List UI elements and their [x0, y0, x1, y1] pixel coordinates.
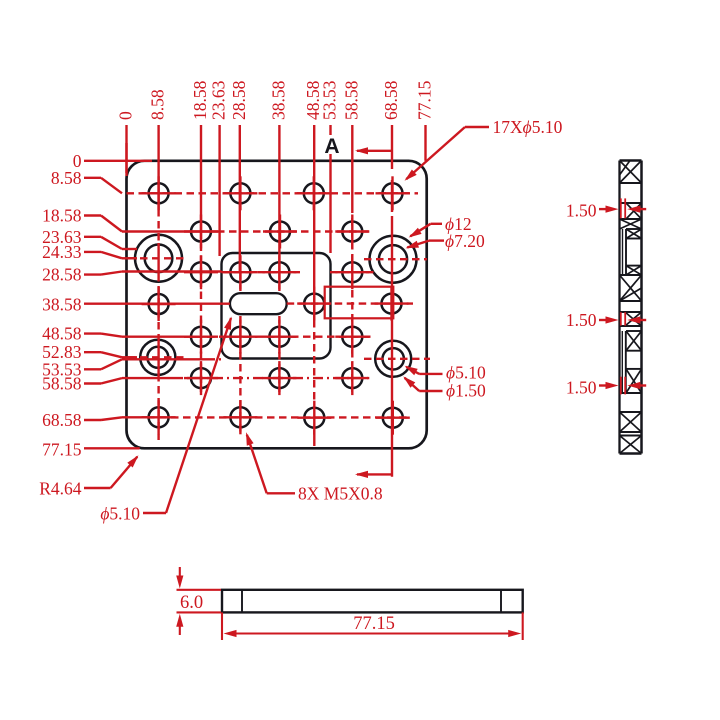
svg-text:8.58: 8.58: [148, 89, 168, 120]
left dimension label 58.58: [42, 374, 173, 394]
row 53.53 dash-dot to pocket: [205, 358, 222, 360]
hole H6 (small, with center cross): [263, 215, 297, 249]
dimension 6.0 extension lines: [177, 590, 222, 613]
col 48.58 tick below bottom hole: [313, 430, 315, 446]
svg-text:23.63: 23.63: [209, 80, 229, 120]
hole H14 (small, with center cross): [375, 287, 409, 321]
svg-text:18.58: 18.58: [190, 80, 210, 120]
column 68.58 solid line through plate and below: [391, 216, 393, 477]
bottom view outline: [222, 590, 523, 613]
hole H16 (small, with center cross): [223, 320, 257, 354]
hole H10 (small, with center cross): [262, 255, 296, 289]
callout R4.64: [39, 455, 138, 498]
centerline col 18.58 dashed lower: [200, 232, 202, 393]
svg-text:77.15: 77.15: [353, 614, 395, 634]
extension line column 38.58: [278, 125, 280, 272]
hole H20 (small, with center cross): [262, 361, 296, 395]
svg-text:ϕ5.10: ϕ5.10: [100, 504, 140, 524]
dimension 6.0 arrows: [176, 567, 183, 635]
left dimension label 8.58: [51, 168, 122, 194]
dimension 1.50 #3: [566, 378, 646, 398]
svg-text:24.33: 24.33: [42, 242, 82, 262]
hole H19 (small, with center cross): [184, 361, 218, 395]
hole H3 (small, with center cross): [297, 176, 331, 210]
svg-text:28.58: 28.58: [229, 80, 249, 120]
bottom arrow pointing left (at y=474): [357, 473, 392, 475]
left dimension label 52.83: [42, 342, 137, 362]
center pocket outline: [222, 253, 331, 359]
left dimension label 77.15: [42, 439, 140, 459]
counterbore hole CB4 phi5.10/phi1.50 bottom-right: [375, 341, 411, 377]
hole H24 (small, with center cross): [297, 401, 331, 435]
hole H17 (small, with center cross): [262, 320, 296, 354]
hole H21 (small, with center cross): [335, 361, 369, 395]
counterbore hole CB3 bottom-left: [140, 340, 175, 375]
svg-text:77.15: 77.15: [42, 439, 82, 459]
callout 17X phi5.10: [405, 117, 563, 181]
row 28.58 dashed centerline: [222, 271, 301, 273]
row 18.58 dashed centerline: [217, 230, 370, 232]
extension line column 18.58: [200, 125, 202, 232]
svg-text:48.58: 48.58: [42, 324, 82, 344]
dimension 77.15 line with arrows: [224, 630, 522, 637]
hole H18 (small, with center cross): [335, 320, 369, 354]
centerline CB1 horizontal dashes: [128, 257, 185, 259]
row 48.58 dashed centerline: [195, 336, 372, 338]
hole H9 (small, with center cross): [223, 255, 257, 289]
svg-text:8.58: 8.58: [51, 168, 82, 188]
row 8.58 dashed centerline: [127, 192, 419, 194]
left dimension label 24.33: [42, 242, 137, 262]
svg-text:68.58: 68.58: [381, 80, 401, 120]
centerline CB2 horizontal dashes: [364, 258, 427, 260]
hole H15 (small, with center cross): [184, 320, 218, 354]
callout phi7.20: [406, 231, 485, 251]
callout phi5.10 (slot, bottom-left): [100, 317, 231, 524]
svg-text:38.58: 38.58: [268, 80, 288, 120]
side view 1.50 red depth bar 3: [621, 377, 625, 395]
svg-text:R4.64: R4.64: [39, 479, 82, 499]
left dimension label 68.58: [42, 410, 147, 430]
svg-text:1.50: 1.50: [566, 378, 597, 398]
hole H1 (small, with center cross): [142, 176, 176, 210]
extension line column 8.58: [157, 125, 159, 209]
extension line column 68.58 upper: [391, 125, 393, 169]
svg-text:ϕ7.20: ϕ7.20: [445, 231, 485, 251]
left dimension label 28.58: [42, 265, 221, 285]
svg-text:77.15: 77.15: [415, 80, 435, 120]
side view 1.50 red depth bar 2: [621, 312, 625, 325]
hole H2 (small, with center cross): [223, 176, 257, 210]
left dimension label 18.58: [42, 206, 217, 232]
callout phi1.50 (right): [403, 376, 486, 400]
hole H5 (small, with center cross): [184, 215, 218, 249]
side view internal horizontal lines: [620, 183, 642, 436]
left dimension label 38.58: [42, 294, 230, 314]
svg-text:6.0: 6.0: [180, 593, 203, 613]
column-0 vertical tick at corner: [125, 143, 127, 176]
svg-text:18.58: 18.58: [42, 206, 82, 226]
left dimension label 23.63: [42, 227, 137, 249]
dimension 1.50 #2: [566, 310, 646, 330]
hole H22 (small, with center cross): [142, 400, 176, 434]
hole H11 (small, with center cross): [335, 255, 369, 289]
centerline CB4 horizontal dashes: [364, 358, 430, 360]
top arrow pointing left (at y=151): [357, 150, 392, 152]
counterbore hole CB2 phi12/phi7.20 top-right: [370, 236, 417, 283]
hole H4 (small, with center cross): [376, 176, 410, 210]
svg-text:53.53: 53.53: [320, 80, 340, 120]
centerline col 58.58 dashed: [351, 218, 353, 392]
svg-text:38.58: 38.58: [42, 294, 82, 314]
left dimension label 53.53: [42, 359, 205, 379]
plate outline (main view): [127, 161, 427, 449]
row 38.58 dashed centerline: [287, 302, 413, 304]
side view counterbore inner wall lines: [622, 229, 626, 393]
centerline col 28.58 dashed lower: [239, 272, 241, 291]
centerline col 48.58 dashed lower: [313, 320, 315, 404]
svg-text:1.50: 1.50: [566, 310, 597, 330]
side view 1.50 red depth bar 1: [621, 198, 625, 218]
row 68.58 dashed centerline: [147, 416, 407, 418]
callout phi12: [409, 214, 472, 238]
svg-text:28.58: 28.58: [42, 265, 82, 285]
svg-text:0: 0: [116, 111, 136, 120]
extension line column 48.58: [313, 125, 315, 320]
svg-text:1.50: 1.50: [566, 201, 597, 221]
hole H8 (small, with center cross): [184, 255, 218, 289]
svg-text:ϕ1.50: ϕ1.50: [446, 381, 486, 401]
callout 8X M5X0.8: [246, 432, 383, 503]
extension line column 28.58: [239, 125, 241, 272]
hole H7 (small, with center cross): [335, 215, 369, 249]
extension line column 23.63: [218, 125, 220, 256]
centerline col 8.58 dashed segments: [157, 209, 159, 243]
svg-text:68.58: 68.58: [42, 410, 82, 430]
dimension 77.15 extension lines: [222, 612, 523, 640]
centerline CB3 horizontal dashes: [128, 356, 185, 358]
hole H25 (small, with center cross): [376, 401, 410, 435]
svg-text:58.58: 58.58: [42, 374, 82, 394]
hole H13 (small, with center cross): [297, 287, 331, 321]
svg-text:A: A: [324, 135, 339, 158]
extension line column 58.58: [351, 125, 353, 213]
bottom view corner tangent lines: [242, 590, 501, 613]
svg-text:ϕ5.10: ϕ5.10: [446, 363, 486, 383]
extension line column 0: [125, 125, 127, 173]
hole H12 (small, with center cross): [142, 287, 176, 321]
slot (rounded): [230, 293, 287, 314]
hole H23 (small, with center cross): [223, 400, 257, 434]
detail box A (red rectangle): [325, 287, 394, 319]
side view outline: [620, 161, 642, 454]
column 68.58 tick below hole: [391, 180, 393, 212]
side view hatching: [620, 161, 642, 454]
left dimension label 0: [73, 151, 152, 171]
svg-text:58.58: 58.58: [341, 80, 361, 120]
extension line column 77.15: [424, 125, 426, 161]
svg-text:17Xϕ5.10: 17Xϕ5.10: [493, 117, 563, 137]
centerline col 38.58 dashed lower: [278, 272, 280, 291]
svg-text:8X M5X0.8: 8X M5X0.8: [298, 484, 383, 504]
row 58.58 dash-dot centerline: [173, 377, 368, 379]
left dimension label 48.58: [42, 324, 195, 344]
counterbore hole CB1 phi12/phi7.20 top-left: [135, 235, 182, 282]
dimension 1.50 #1: [566, 201, 646, 221]
callout phi5.10 (right): [405, 363, 486, 383]
extension line column 53.53 (split around A): [329, 125, 331, 135]
